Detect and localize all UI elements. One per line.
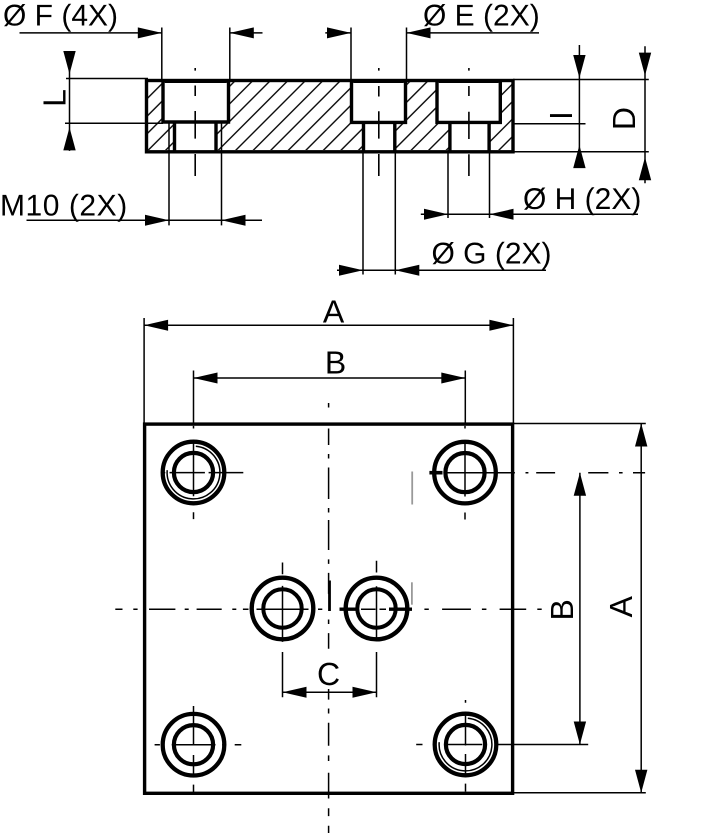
section plate outline — [147, 81, 514, 152]
hole BL counterbore circle — [163, 714, 225, 776]
right counterbore walls — [435, 81, 502, 123]
dim D arrow bottom — [639, 157, 651, 180]
section centerline left hole — [194, 68, 196, 176]
section centerline center hole — [378, 68, 380, 176]
thin opening edge right counterbore — [439, 82, 499, 84]
dim B top arrow right — [441, 373, 465, 384]
svg-text:B: B — [325, 344, 346, 380]
hatch region right strip — [489, 82, 511, 150]
dim A right line — [640, 424, 642, 793]
center hole left inner circle — [263, 589, 301, 627]
dim A top arrow left — [144, 320, 168, 331]
dim B top line — [194, 377, 466, 379]
section centerline right hole — [468, 68, 470, 176]
svg-text:Ø G (2X): Ø G (2X) — [432, 237, 552, 270]
center counterbore walls — [350, 81, 407, 123]
center hole right inner circle — [357, 589, 395, 627]
hole BL tap circle — [174, 725, 213, 764]
dim B top arrow left — [194, 373, 218, 384]
dim M10 arrow right — [222, 215, 246, 226]
gray tick near TR hole — [411, 472, 413, 505]
plan plate outline — [145, 424, 513, 793]
dim A top extension lines — [144, 318, 513, 424]
crosshair TL hole horizontal — [162, 472, 243, 474]
thick centerline dash horizontal left of right-center hole — [340, 608, 359, 611]
dim B right line — [579, 473, 581, 745]
dim F arrow left — [138, 27, 162, 38]
dim I arrow bottom — [573, 145, 585, 168]
thin opening edge left counterbore — [165, 82, 227, 84]
crosshair left center hole vertical — [282, 563, 284, 642]
hole TR counterbore circle — [434, 442, 496, 504]
crosshair BR hole vertical — [465, 700, 467, 792]
hatch region between left and center holes — [216, 82, 364, 150]
dim D line — [644, 46, 646, 183]
dim B top extension lines — [194, 371, 466, 425]
dim I line — [578, 45, 580, 168]
dim M10 connecting line — [169, 219, 222, 221]
crosshair BL hole vertical — [193, 706, 195, 792]
dim M10 line right tail — [222, 219, 263, 221]
right bore extension lines down — [448, 152, 490, 218]
crosshair TR thick dash — [429, 471, 442, 475]
svg-text:A: A — [603, 595, 639, 617]
dim B right arrow top — [574, 473, 586, 496]
dim F extension lines — [162, 28, 230, 81]
right bore walls — [450, 122, 489, 151]
hatch region between center and right holes — [395, 82, 450, 150]
dim I reference line mid — [513, 123, 586, 125]
dim H arrow right — [490, 209, 514, 220]
crosshair TL hole vertical — [193, 426, 195, 519]
top surface extension line right — [513, 79, 649, 81]
dim C extension lines — [283, 652, 377, 697]
hole BR counterbore circle — [435, 714, 497, 776]
crosshair TR hole horizontal — [447, 472, 646, 474]
dim F line right tail — [230, 32, 263, 34]
dim H arrow left — [424, 209, 448, 220]
dim A right arrow top — [635, 424, 647, 447]
hatch region left strip — [148, 82, 175, 150]
dim C arrow right — [353, 687, 377, 698]
gray tick near center holes — [411, 582, 413, 604]
dim M10 line left tail — [27, 219, 170, 221]
dim L reference lines — [65, 79, 163, 124]
thick centerline dash vertical at center — [328, 581, 331, 612]
plan horizontal centerline — [115, 608, 541, 610]
svg-text:D: D — [606, 107, 642, 130]
svg-text:M10 (2X): M10 (2X) — [0, 190, 128, 223]
dim B right arrow bottom — [574, 722, 586, 745]
svg-text:Ø F (4X): Ø F (4X) — [3, 0, 118, 32]
svg-text:C: C — [317, 656, 340, 692]
dim G line — [337, 269, 546, 271]
hole TL tap circle — [174, 453, 213, 492]
dim G arrow right — [395, 265, 419, 276]
hole TR tap circle — [445, 453, 484, 492]
dim L line — [69, 51, 71, 151]
svg-text:B: B — [544, 599, 580, 620]
bottom surface extension line right — [513, 151, 649, 153]
dim D arrow top — [639, 53, 651, 76]
dim H line — [421, 213, 638, 215]
dim M10 arrow left — [145, 215, 169, 226]
hole BR thread arc — [439, 718, 492, 771]
hole TL counterbore circle — [163, 442, 225, 504]
dim F arrow right — [230, 27, 254, 38]
left counterbore walls — [161, 81, 230, 123]
dim C arrow left — [283, 687, 307, 698]
hole TL thread arc — [167, 446, 220, 499]
dim E extension lines — [351, 28, 407, 81]
crosshair right center hole vertical — [376, 561, 378, 639]
svg-text:A: A — [323, 293, 345, 329]
thin opening edge center counterbore — [353, 82, 404, 84]
dim A right extension lines — [513, 424, 646, 793]
dim C line — [283, 691, 377, 693]
dim L arrow top — [63, 51, 75, 74]
crosshair BR hole horizontal — [416, 744, 588, 746]
center hole left outer circle — [252, 578, 314, 640]
dim E line right tail — [407, 32, 540, 34]
dim I arrow top — [573, 55, 585, 78]
svg-text:Ø E (2X): Ø E (2X) — [423, 0, 540, 32]
left hole thread lines — [169, 122, 222, 225]
svg-text:Ø H (2X): Ø H (2X) — [523, 183, 641, 216]
dim A top arrow right — [489, 320, 513, 331]
thick centerline dash horizontal right of right-center hole — [389, 608, 412, 611]
dim A right arrow bottom — [635, 770, 647, 793]
hole BR tap circle — [446, 725, 485, 764]
dim F line left tail — [20, 32, 162, 34]
left tapped hole walls M10 — [175, 122, 217, 152]
dim E arrow left — [327, 27, 351, 38]
center bore extension lines down — [363, 152, 395, 275]
crosshair TR hole vertical — [464, 426, 466, 520]
dim G arrow left — [339, 265, 363, 276]
svg-text:I: I — [543, 111, 579, 120]
crosshair BL hole horizontal — [155, 744, 242, 746]
plan vertical centerline — [328, 403, 330, 833]
dim L arrow bottom — [63, 127, 75, 150]
dim E line left tail — [325, 32, 351, 34]
center bore walls — [364, 122, 395, 151]
dim E arrow right — [407, 27, 431, 38]
svg-text:L: L — [36, 89, 72, 107]
center hole right outer circle — [346, 578, 408, 640]
dim A top line — [144, 324, 513, 326]
